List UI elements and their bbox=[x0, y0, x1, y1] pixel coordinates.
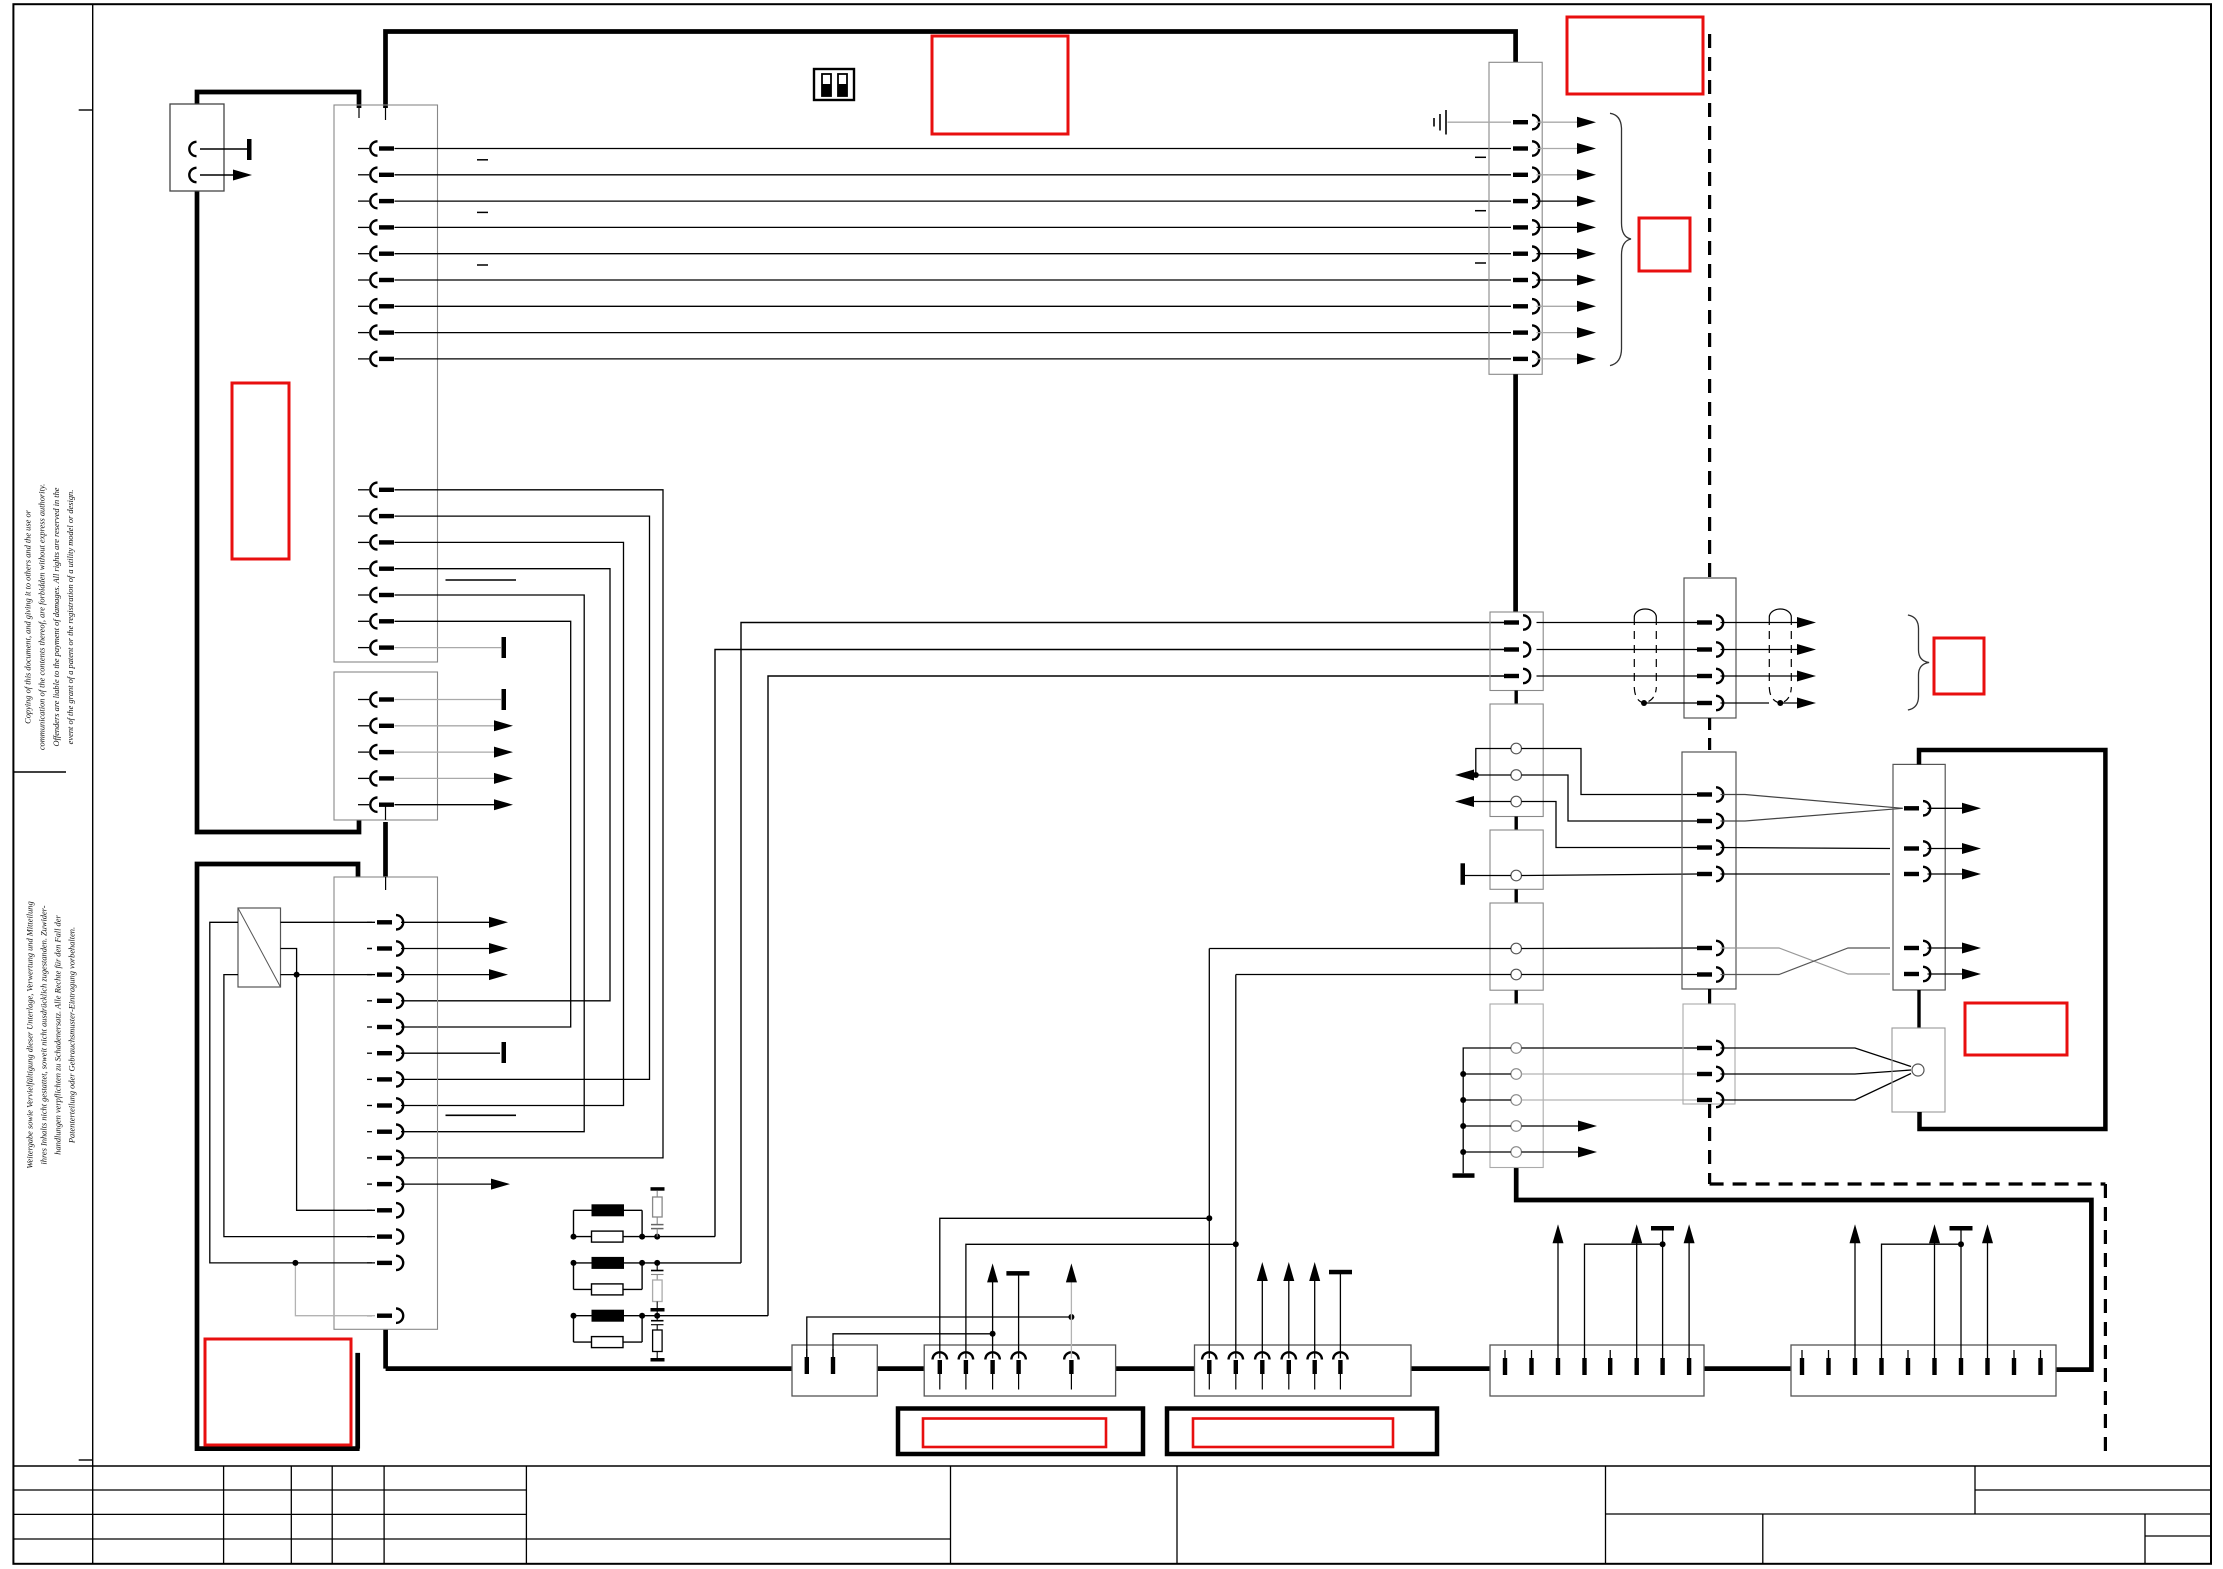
suppressor chain Z2 (C, R, bar) bbox=[656, 1263, 658, 1270]
dashed border net B1-B2 bbox=[1708, 718, 1711, 752]
wire K1.g3 pin5 arrow bbox=[395, 804, 496, 806]
wire label dashes left bbox=[477, 160, 488, 265]
wire X2.1 up-right to X3.5 bbox=[807, 1317, 1072, 1357]
svg-text:handlungen verpflichten zu Sch: handlungen verpflichten zu Schadenersatz… bbox=[54, 915, 63, 1155]
terminator T K3.6 bbox=[502, 1042, 507, 1063]
wire stub K3 top internal bbox=[385, 877, 387, 890]
wire relay right to K3 pin1 bbox=[281, 921, 376, 923]
wire T to A3 bbox=[1465, 875, 1511, 877]
svg-text:Offenders are liable to the pa: Offenders are liable to the payment of d… bbox=[52, 487, 61, 746]
wire junction down to K3 pin12 bbox=[297, 975, 375, 1211]
margin tick y110 bbox=[79, 109, 93, 111]
bottom bus segments bbox=[386, 1366, 792, 1371]
relay K4 diagonal bbox=[238, 908, 281, 987]
wire K1.g2 pin6 route to K3 bbox=[395, 621, 571, 1027]
wire A2.2 zigzag to B2.2 bbox=[1522, 775, 1698, 821]
wire relay lower-right junction to K3 pin3 bbox=[281, 974, 376, 976]
wire stub K1 bottom internal bbox=[385, 805, 387, 820]
wire K3 pin15 row to riser bbox=[642, 1315, 768, 1317]
thick box G2 (below X4) bbox=[1167, 1409, 1437, 1455]
filter L2 + resistor R2 (pin 14) bbox=[574, 1262, 593, 1264]
X3 pins bbox=[933, 1352, 1079, 1389]
connector C1 body bbox=[1893, 764, 1945, 990]
suppressor chain Z1 (T, R, C) bbox=[651, 1187, 665, 1191]
wires B3 to C2 merge bbox=[1721, 1048, 1912, 1067]
junction dots L1/R1 row bbox=[571, 1234, 577, 1240]
wire harness K1 bottom to K2 bbox=[383, 822, 388, 877]
wire harness X10 bottom to A1 bbox=[1513, 374, 1518, 612]
wire K1.g3 pin4 arrow bbox=[395, 777, 496, 779]
filter L1 + resistor R1 (pins 12/13) bbox=[574, 1209, 593, 1211]
wire B2.4 to C1.3 bbox=[1721, 873, 1891, 875]
ground bar A5 bbox=[1453, 1173, 1475, 1178]
junction dot pin15 feeder bbox=[292, 1260, 298, 1266]
wire X4.6 up to T bbox=[1339, 1274, 1341, 1359]
wires A5 rows1-3 to B3 bbox=[1522, 1047, 1698, 1049]
wire harness K3 pigtail to bottom bus bbox=[383, 1329, 388, 1368]
connector A3 body bbox=[1490, 830, 1543, 889]
wire K1.g3 pin1 to terminator bbox=[395, 699, 502, 701]
connector A5 body bbox=[1490, 1004, 1543, 1168]
wire label dashes right bbox=[1475, 157, 1486, 263]
link C1-C2 thick bbox=[1917, 990, 1920, 1028]
connector X3 (5-pin bottom) bbox=[924, 1345, 1115, 1396]
C2 circle pin (merge) bbox=[1912, 1064, 1924, 1076]
thick box D bbox=[1919, 750, 2105, 1129]
wires X5 arrows bbox=[1557, 1243, 1559, 1350]
wire harness K2 trunk outline bbox=[197, 864, 360, 1449]
wire V1 from A4 row down to X4.1 bbox=[1208, 949, 1210, 1359]
wire X3.1 up to V1 bbox=[940, 1218, 1210, 1358]
connector X2 (2-pin bottom) bbox=[792, 1345, 877, 1396]
margin copyright notice german bbox=[25, 901, 76, 1168]
connector X10 pins bbox=[1513, 115, 1539, 366]
wire K3 pin14 row to riser bbox=[642, 1262, 741, 1264]
wire K1.g3 pin3 arrow bbox=[395, 751, 496, 753]
wire A2.2 left arrow bbox=[1474, 774, 1511, 776]
wire A2.3 left arrow bbox=[1462, 801, 1511, 803]
title block columns bbox=[223, 1466, 225, 1564]
wire K3 pin15 feeder bbox=[295, 1263, 375, 1316]
wire B1.4 shield arrow bbox=[1780, 702, 1797, 704]
connector X6 (wide bottom 2) bbox=[1791, 1345, 2056, 1396]
A2 circle pins bbox=[1511, 743, 1522, 754]
junction dots L2 row bbox=[571, 1260, 577, 1266]
connector K3 body bbox=[334, 877, 438, 1329]
svg-text:Weitergabe sowie Vervielfältig: Weitergabe sowie Vervielfältigung dieser… bbox=[25, 901, 34, 1168]
wire V2 from A4 row down to X4.2 bbox=[1235, 975, 1237, 1359]
shield junction dot left bbox=[1641, 700, 1647, 706]
connector X1 pin 2 bbox=[189, 168, 196, 182]
label underline K3 bbox=[446, 1114, 517, 1116]
suppressor chain Z3 (C, R to bus) bbox=[656, 1316, 658, 1320]
wires X4 pins3-5 up arrows bbox=[1261, 1281, 1263, 1359]
wire A5 ground rail bbox=[1463, 1048, 1511, 1173]
shield junction dot right bbox=[1777, 700, 1783, 706]
wire K1.g3 pin2 arrow bbox=[395, 725, 496, 727]
wire A2.3 zigzag to B2.3 bbox=[1522, 802, 1698, 848]
X2 pin 2 bbox=[831, 1349, 835, 1374]
wires K1 group1 to X10 bbox=[395, 149, 1512, 359]
wire B2.3 to C1.2 bbox=[1721, 848, 1891, 849]
connector K1 pin group2 bbox=[358, 483, 394, 655]
connector X5 (wide bottom 1) bbox=[1490, 1345, 1704, 1396]
wires B2.1+B2.2 converge to C1.1 bbox=[1721, 795, 1903, 809]
connector A2 body bbox=[1490, 704, 1543, 817]
margin divider y772 bbox=[13, 771, 66, 773]
wire X1.1 to terminator bbox=[200, 148, 247, 150]
wire X3.4 up to T bbox=[1018, 1276, 1020, 1359]
wires X6 arrows bbox=[1854, 1243, 1856, 1350]
wire A2.1 left drop bbox=[1476, 749, 1511, 776]
title block rows left bbox=[13, 1489, 526, 1491]
wire A4.1 right to B2.5 bbox=[1522, 947, 1698, 950]
brace bundle B1 bbox=[1908, 615, 1929, 710]
B1 pins bbox=[1697, 615, 1723, 710]
terminator T X1.1 bbox=[247, 139, 252, 160]
C1 pins bbox=[1904, 801, 1930, 981]
connector X4 (6-pin bottom) bbox=[1195, 1345, 1412, 1396]
wire X3.3 up arrow bbox=[992, 1282, 994, 1359]
ground symbol at X10 pin1 bbox=[1448, 121, 1512, 123]
A1 pins bbox=[1504, 615, 1530, 683]
link A3-A4 bbox=[1514, 889, 1517, 903]
redacted label box (bottom left) bbox=[205, 1339, 351, 1445]
wires A5 rows4-5 arrows bbox=[1522, 1125, 1579, 1127]
dashed border net bottom bbox=[1708, 1104, 1711, 1184]
wire A4.2 left to V2 bbox=[1236, 974, 1511, 976]
wire A4.2 right to B2.6 bbox=[1522, 974, 1698, 976]
title block top line bbox=[13, 1465, 2211, 1467]
connector B1 body bbox=[1684, 578, 1736, 718]
wire X6.4 join bbox=[1882, 1244, 1962, 1350]
A4 circle pins bbox=[1511, 943, 1522, 954]
wire K1.g2 pin5 route to K3 bbox=[395, 595, 585, 1132]
twisted pair shield left bbox=[1634, 609, 1656, 617]
X2 pin 1 bbox=[805, 1349, 809, 1374]
junction dots L3 row bbox=[571, 1313, 577, 1319]
X5 pins bbox=[1503, 1350, 1692, 1375]
wire K1.g2 pin3 route to K3 bbox=[395, 542, 624, 1105]
wires C1 arrows bbox=[1928, 807, 1963, 809]
wires K3 pins1-3 arrows bbox=[401, 921, 489, 923]
connector K1 lower body bbox=[334, 672, 438, 820]
wire K1.g2 pin7 to terminator bbox=[395, 647, 502, 649]
wire X1.2 arrow bbox=[200, 174, 233, 176]
wire relay top-left drop to K3 pin14 bbox=[210, 922, 375, 1263]
dip switch S1 bbox=[814, 69, 854, 100]
wires X10 right arrows bbox=[1537, 117, 1597, 365]
connector C2 body bbox=[1892, 1028, 1945, 1112]
connector K1 upper body bbox=[334, 105, 438, 662]
svg-text:Copying of this document, and: Copying of this document, and giving it … bbox=[24, 509, 33, 724]
label underline K1 group2 bbox=[446, 579, 517, 581]
connector K1 pin group3 bbox=[358, 692, 394, 812]
filter L3 + resistor R3 (pin 15) bbox=[574, 1315, 593, 1317]
B3 pins bbox=[1697, 1041, 1723, 1107]
wire K1.g2 pin1 route to K3 bbox=[395, 490, 664, 1158]
wire X5.7 to T bbox=[1662, 1231, 1664, 1351]
terminator T K1.g2.7 bbox=[502, 637, 507, 658]
wire harness top bus bbox=[386, 32, 1516, 109]
wires B1 to right arrows bbox=[1721, 622, 1798, 624]
relay K4 body bbox=[238, 908, 281, 987]
wires A1 to B1 rows bbox=[1537, 622, 1698, 624]
wire X3.2 up to V2 bbox=[966, 1244, 1236, 1358]
redacted label box (X10 small) bbox=[1639, 218, 1690, 271]
margin separator line bbox=[92, 4, 94, 1564]
connector A4 body bbox=[1490, 903, 1543, 990]
wire K1.g2 pin4 route to K3 bbox=[395, 569, 611, 1001]
brace bundle X10 bbox=[1610, 113, 1631, 365]
wire shield to B1.4 bbox=[1644, 702, 1697, 704]
twisted pair shield right bbox=[1769, 609, 1791, 617]
wire X2.2 up-right to X3.3 bbox=[833, 1334, 993, 1357]
link B2-B3 solid bbox=[1708, 989, 1711, 1004]
connector X10 body bbox=[1489, 62, 1542, 374]
wire harness X1 to K1 top bbox=[197, 92, 359, 108]
terminator T K1.g3.1 bbox=[502, 689, 507, 710]
thick box G1 (below X3) bbox=[898, 1409, 1143, 1455]
wire X5.4 join bbox=[1585, 1244, 1663, 1350]
wire K3 pin11 arrow bbox=[401, 1183, 491, 1185]
wire relay upper-right stub down bbox=[281, 949, 297, 975]
link A2-A3 bbox=[1514, 817, 1517, 831]
redacted label box in G2 bbox=[1193, 1419, 1393, 1448]
X4 pins bbox=[1202, 1352, 1348, 1389]
svg-text:ihres Inhalts nicht gestattet,: ihres Inhalts nicht gestattet, soweit ni… bbox=[40, 905, 49, 1164]
wires B2.5/B2.6 cross to C1 bbox=[1721, 948, 1891, 974]
svg-text:event of the grant of a patent: event of the grant of a patent or the re… bbox=[66, 490, 75, 745]
link A1-A2 bbox=[1514, 691, 1517, 705]
wire harness X1 bottom trunk bbox=[197, 191, 359, 832]
link A4-A5 bbox=[1514, 990, 1517, 1004]
connector X1 pin 1 bbox=[189, 142, 196, 156]
wire K3 pin2 stub bbox=[367, 948, 372, 950]
svg-text:Patenterteilung oder Gebrauchs: Patenterteilung oder Gebrauchsmuster-Ein… bbox=[68, 927, 77, 1144]
redacted label box (bundle) bbox=[1934, 638, 1984, 694]
wire X6.7 to T bbox=[1960, 1231, 1962, 1351]
redacted label box in G1 bbox=[923, 1419, 1106, 1448]
wire X3.5 up arrow (gray) bbox=[1070, 1282, 1072, 1359]
X6 pins bbox=[1800, 1350, 2043, 1375]
junction dot relay bbox=[294, 972, 300, 978]
wire K3 pin6 to terminator bbox=[401, 1052, 500, 1054]
redacted label box (left tall) bbox=[232, 383, 289, 559]
wire A4.1 left to V1 bbox=[1209, 948, 1511, 950]
bus right wrap from A5 bbox=[1516, 1168, 2091, 1370]
wire relay lower-left to K3 pin13 bbox=[224, 975, 375, 1237]
title block right section lines bbox=[1974, 1466, 1976, 1514]
connector B3 body bbox=[1683, 1004, 1735, 1104]
wire A2.1 zigzag to B2.1 bbox=[1522, 749, 1698, 795]
connector X1 bbox=[170, 104, 224, 191]
connector B2 body bbox=[1682, 752, 1736, 989]
margin tick y1460 bbox=[79, 1459, 93, 1461]
terminator T A3 bbox=[1461, 863, 1466, 885]
A5 circle pins bbox=[1511, 1043, 1522, 1054]
wire K3 pin13 row through R1 to riser bbox=[642, 1236, 715, 1238]
connector A1 body bbox=[1490, 612, 1543, 691]
redacted label box (top right big) bbox=[1567, 17, 1703, 94]
dashed border net (top) bbox=[1708, 34, 1711, 578]
redacted label box (right) bbox=[1965, 1003, 2067, 1055]
connector K1 pin group1 bbox=[358, 141, 394, 366]
A3 circle pin bbox=[1511, 870, 1522, 881]
wire K1.g2 pin2 route to K3 bbox=[395, 516, 650, 1079]
B2 pins bbox=[1697, 787, 1723, 981]
wire harness K2 lower right edge bbox=[355, 1353, 360, 1449]
margin copyright notice english bbox=[24, 484, 75, 750]
connector K3 pins (15) bbox=[367, 915, 403, 1323]
redacted label box (top center) bbox=[932, 36, 1068, 134]
svg-text:communication of the contents: communication of the contents thereof, a… bbox=[38, 484, 47, 750]
risers from component rows to A1 rows bbox=[715, 650, 1511, 1237]
wire stubs inside K1 top bbox=[385, 108, 387, 120]
wire A3 to B2.4 bbox=[1522, 874, 1698, 876]
junction dot A2 bbox=[1473, 772, 1479, 778]
